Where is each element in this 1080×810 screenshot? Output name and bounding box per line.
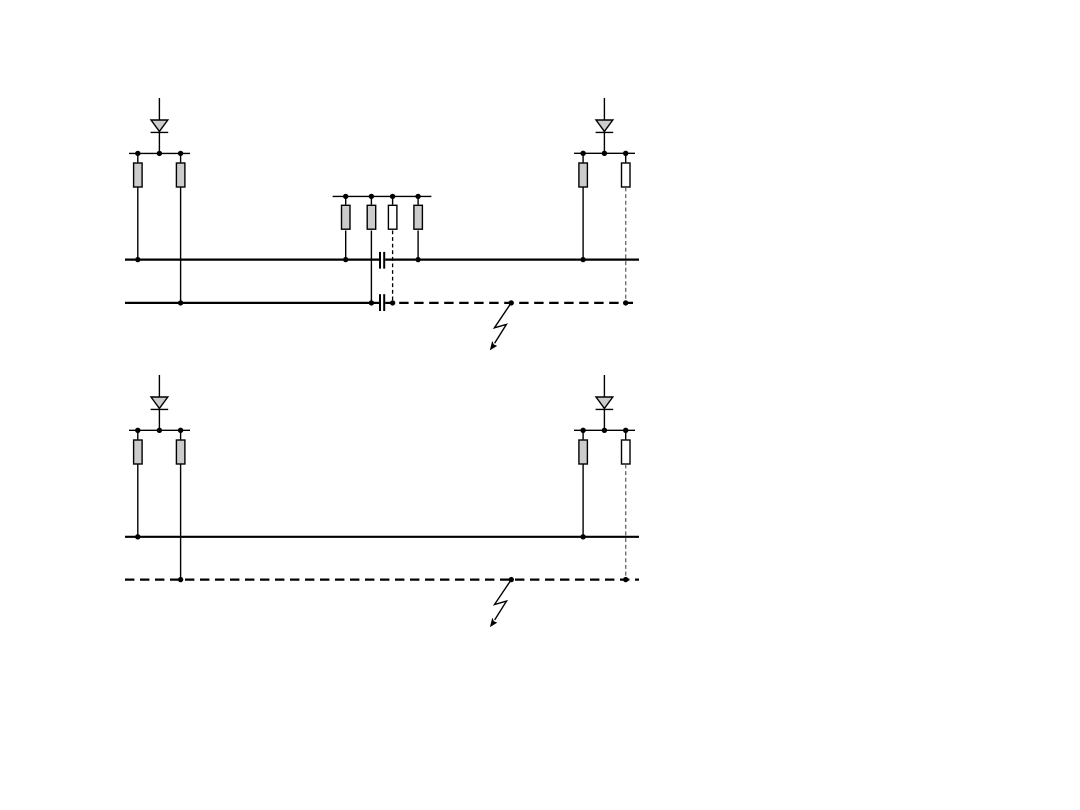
wire R1 to bus A	[137, 187, 139, 259]
junction dot	[623, 151, 628, 156]
junction dot	[178, 151, 183, 156]
resistor R4	[367, 196, 376, 229]
junction dot R12/busD	[623, 577, 628, 582]
junction dot	[580, 428, 585, 433]
resistor R5 (unloaded, white)	[388, 196, 397, 229]
junction dot R10/busD	[178, 577, 183, 582]
diode D2	[596, 120, 614, 132]
resistor R12 (unloaded, white)	[622, 430, 631, 464]
wire R7 to bus A	[582, 187, 584, 259]
resistor R7	[579, 153, 588, 187]
diode D1 anode lead wire	[158, 98, 160, 120]
resistor R10	[176, 430, 185, 464]
diode D3	[151, 397, 169, 409]
wire bus C	[125, 536, 639, 538]
junction dot	[415, 194, 420, 199]
resistor R6	[414, 196, 423, 229]
junction dot	[135, 151, 140, 156]
resistor R11	[579, 430, 588, 464]
junction dot	[602, 428, 607, 433]
wire bus B dashed segment	[399, 302, 633, 304]
junction dot	[580, 151, 585, 156]
resistor R2	[176, 153, 185, 187]
wire bottom-right node bar	[574, 429, 635, 431]
resistor R9	[134, 430, 143, 464]
junction dot	[343, 194, 348, 199]
capacitor C2	[380, 294, 384, 311]
wire R5 to bus B (dashed)	[392, 231, 394, 303]
resistor R3	[342, 196, 351, 229]
junction dot surge node bottom	[509, 577, 514, 582]
wire R4 to bus B	[370, 231, 372, 303]
surge arrow (lightning) top	[490, 303, 511, 351]
diode D1	[151, 120, 169, 132]
junction dot	[135, 428, 140, 433]
junction dot	[602, 151, 607, 156]
wire bottom-left node bar	[129, 429, 190, 431]
junction dot R11/busC	[580, 534, 585, 539]
resistor R8 (unloaded, white)	[622, 153, 631, 187]
junction dot R9/busC	[135, 534, 140, 539]
junction dot R1/busA	[135, 257, 140, 262]
junction dot R2/busB	[178, 300, 183, 305]
wire top-right node bar	[574, 152, 635, 154]
wire bus B solid left segment	[125, 302, 379, 304]
wire bus D (dashed)	[125, 578, 639, 580]
wire R9 to bus C	[137, 464, 139, 536]
wire C2 to node stub	[385, 302, 392, 304]
wire R3 to bus A	[345, 231, 347, 260]
junction dot	[157, 151, 162, 156]
resistor R1	[134, 153, 143, 187]
junction dot	[157, 428, 162, 433]
wire R12 to bus D (gray dashed)	[625, 464, 627, 579]
wire top-left node bar	[129, 152, 190, 154]
wire R6 to bus A	[417, 231, 419, 260]
wire R11 to bus C	[582, 464, 584, 536]
wire top-middle node bar	[333, 195, 432, 197]
diode D4 anode lead wire	[603, 375, 605, 397]
wire bus A left segment	[125, 259, 379, 261]
junction dot surge node	[509, 300, 514, 305]
junction dot	[369, 194, 374, 199]
junction dot	[178, 428, 183, 433]
diode D2 anode lead wire	[603, 98, 605, 120]
wire diode D3 cathode to node bar	[158, 409, 160, 431]
surge arrow (lightning) bottom	[490, 580, 511, 628]
wire diode D4 cathode to node bar	[603, 409, 605, 431]
junction dot R6/busA	[415, 257, 420, 262]
junction dot R8/busB	[623, 300, 628, 305]
wire bus A right segment	[385, 259, 639, 261]
capacitor C1	[380, 252, 384, 269]
wire diode D2 cathode to node bar	[603, 132, 605, 154]
wire R10 to bus D	[180, 464, 182, 579]
wire R8 to bus B (gray dashed)	[625, 187, 627, 303]
junction dot R5/busB	[390, 300, 395, 305]
diode D4	[596, 397, 614, 409]
junction dot	[623, 428, 628, 433]
wire R2 to bus B	[180, 187, 182, 303]
junction dot R4/busB	[369, 300, 374, 305]
diode D3 anode lead wire	[158, 375, 160, 397]
junction dot R3/busA	[343, 257, 348, 262]
junction dot R7/busA	[580, 257, 585, 262]
junction dot	[390, 194, 395, 199]
wire diode D1 cathode to node bar	[158, 132, 160, 154]
